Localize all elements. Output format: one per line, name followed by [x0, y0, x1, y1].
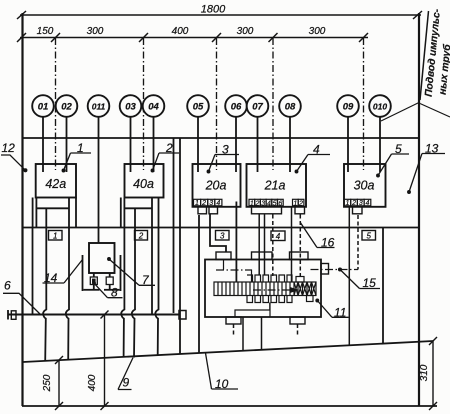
- centerline group axis 5: [363, 38, 365, 170]
- manifold drain stub right: [297, 324, 299, 336]
- comb teeth lower row: [247, 296, 292, 303]
- svg-text:10: 10: [215, 377, 229, 391]
- tick 400 top: [101, 311, 109, 319]
- instrument 03: [120, 95, 142, 117]
- dimension line 150-300-400-300-300: [17, 33, 368, 42]
- valve 8 right leg: [109, 273, 111, 277]
- block 21a: [247, 164, 307, 207]
- terminal strip 21a pins 1-6: [249, 199, 283, 206]
- dimension 310 vertical: [432, 341, 434, 406]
- svg-text:3: 3: [220, 232, 225, 241]
- manifold top flange left: [216, 252, 231, 260]
- svg-text:16: 16: [321, 236, 335, 250]
- svg-text:06: 06: [231, 102, 242, 113]
- instrument 08: [279, 95, 301, 117]
- svg-text:3: 3: [222, 143, 229, 157]
- leader callout 15: [340, 270, 380, 289]
- leader callout dot 8: [93, 282, 96, 285]
- wire 40a left leg to floor: [121, 228, 124, 357]
- leader callout 7: [109, 259, 155, 285]
- leader callout 11: [317, 301, 348, 318]
- wire 40a bar to floor: [132, 208, 135, 357]
- position tag 1: [49, 231, 63, 241]
- wire 08 to 21a: [289, 117, 291, 172]
- wire 21a terminal 4 down: [264, 215, 266, 276]
- manifold right flange: [321, 264, 329, 275]
- terminal stub 20a left: [198, 207, 207, 214]
- terminal strip 20a: [194, 199, 222, 206]
- wire 21a terminal 2 down: [258, 215, 260, 276]
- block 40a: [125, 164, 164, 198]
- svg-text:300: 300: [309, 26, 326, 37]
- svg-text:300: 300: [87, 26, 104, 37]
- svg-text:1800: 1800: [201, 4, 226, 16]
- svg-text:400: 400: [172, 26, 189, 37]
- wire 05 to 20a: [197, 117, 199, 172]
- position tag 4: [271, 231, 285, 241]
- impulse line 30a horizontal axis: [311, 269, 359, 271]
- manifold duct right wall: [261, 317, 263, 350]
- svg-text:4: 4: [276, 232, 281, 241]
- svg-text:08: 08: [285, 102, 296, 113]
- device 7 box: [89, 243, 115, 273]
- comb drain stub: [269, 303, 271, 318]
- manifold body: [205, 260, 321, 318]
- svg-text:010: 010: [373, 102, 387, 112]
- wire 07 to 21a: [257, 117, 259, 172]
- svg-text:2: 2: [201, 200, 206, 207]
- svg-text:11: 11: [334, 305, 346, 319]
- terminal strip 21a pins 1-2: [293, 199, 304, 206]
- tick 250 top: [55, 356, 63, 364]
- leader from 010 to note: [381, 102, 420, 121]
- leader callout dot 11: [316, 299, 319, 302]
- centerline group axis 3: [216, 38, 218, 170]
- tick 310 top: [429, 337, 437, 345]
- terminal stub 20a right: [209, 207, 218, 214]
- position tag 3: [216, 231, 230, 241]
- svg-text:250: 250: [42, 374, 53, 392]
- svg-text:6: 6: [4, 279, 11, 293]
- centerline group axis 2: [143, 38, 145, 170]
- terminal stub 21a aux: [295, 207, 305, 214]
- valve 8 left plug: [92, 279, 96, 283]
- centerline group axis 4: [272, 38, 274, 170]
- svg-text:2: 2: [351, 200, 356, 207]
- leader callout 13: [409, 154, 445, 193]
- purge pipe left valve: [11, 311, 16, 320]
- wire 03 to 40a: [130, 117, 132, 172]
- wire 21a aux down: [291, 207, 293, 282]
- leader callout 8: [94, 283, 123, 298]
- instrument 04: [143, 95, 165, 117]
- wire 40a right leg to floor: [155, 228, 158, 356]
- block 30a: [344, 164, 386, 207]
- manifold drain stub left: [233, 324, 235, 336]
- svg-text:02: 02: [61, 102, 72, 113]
- svg-text:42a: 42a: [45, 177, 66, 191]
- terminal stub 30a: [353, 207, 363, 214]
- terminal stub 21a main: [252, 207, 282, 214]
- svg-text:400: 400: [87, 374, 98, 391]
- leader callout 5: [378, 154, 409, 176]
- instrument 010: [369, 95, 391, 117]
- leader callout 16: [300, 222, 335, 248]
- valve comb inside manifold: [214, 260, 316, 318]
- frame bottom line: [22, 405, 437, 407]
- wire 20a right jog to manifold: [210, 215, 226, 253]
- leader callout dot 1: [62, 169, 65, 172]
- device 7 bracket left: [82, 255, 84, 291]
- svg-text:12: 12: [2, 141, 16, 155]
- manifold top flange middle: [252, 252, 273, 260]
- manifold axis left: [216, 269, 252, 271]
- instrument 02: [56, 95, 78, 117]
- valve 8 right foot: [104, 289, 120, 291]
- dimension line 1800: [17, 11, 422, 19]
- impulse pipes note slant line: [420, 11, 429, 100]
- svg-text:14: 14: [44, 271, 58, 285]
- left flange link to axis: [223, 260, 225, 270]
- svg-text:150: 150: [37, 26, 54, 37]
- impulse line 30a dashed down: [357, 215, 359, 270]
- support 40a inner right to pipe: [151, 228, 153, 314]
- shelf line top: [23, 137, 419, 139]
- svg-text:2: 2: [165, 141, 173, 155]
- shelf line middle: [23, 227, 419, 229]
- leader callout dot 5: [377, 174, 380, 177]
- device 7 bracket right: [120, 255, 122, 291]
- drain pipe inside manifold: [235, 303, 270, 318]
- wire at pipe end to floor: [179, 319, 181, 354]
- wire 04 to 40a: [153, 117, 155, 172]
- svg-text:1: 1: [195, 200, 199, 207]
- purge pipe left end bar: [7, 310, 9, 320]
- frame right border: [418, 13, 420, 406]
- wire 06 to 20a: [235, 117, 237, 172]
- instrument 05: [187, 95, 209, 117]
- instrument circles row: [32, 95, 391, 117]
- svg-text:30a: 30a: [354, 179, 375, 193]
- svg-text:4: 4: [313, 143, 320, 157]
- svg-text:8: 8: [111, 286, 118, 300]
- frame left border: [21, 13, 23, 406]
- partition wall second line: [179, 138, 181, 319]
- valve 8 left body: [90, 277, 97, 285]
- comb teeth upper row: [247, 275, 292, 282]
- impulse line 21a aux dashed: [299, 215, 301, 277]
- leader callout dot 7: [108, 258, 111, 261]
- sloped floor line: [23, 341, 433, 362]
- svg-text:1: 1: [77, 141, 84, 155]
- tick 250 bottom: [55, 402, 63, 410]
- wire 42a outer left to purge pipe: [32, 228, 34, 314]
- position tag 5: [362, 231, 376, 241]
- manifold bottom flange left: [226, 317, 241, 324]
- svg-text:3: 3: [209, 200, 213, 207]
- wire 42a right leg to floor: [66, 228, 69, 360]
- svg-text:5: 5: [366, 232, 371, 241]
- axis link down to comb: [251, 270, 253, 283]
- leader callout 4: [297, 155, 331, 172]
- position tag 2: [135, 231, 148, 241]
- svg-text:13: 13: [425, 142, 439, 156]
- valve 8 left leg: [93, 273, 95, 277]
- leader callout 1: [64, 153, 92, 171]
- svg-text:9: 9: [123, 376, 130, 390]
- svg-text:07: 07: [252, 102, 263, 113]
- manifold bottom flange right: [290, 317, 305, 324]
- leader callout 12: [1, 155, 25, 170]
- dimension 250 vertical: [58, 360, 60, 406]
- centerline group axis 1: [55, 38, 57, 170]
- impulse pipes note bottom line: [420, 104, 450, 118]
- svg-text:20a: 20a: [205, 179, 227, 193]
- svg-text:011: 011: [92, 102, 106, 112]
- leader callout dot 4: [295, 170, 298, 173]
- wire 011 down to device 7: [98, 117, 100, 243]
- svg-text:300: 300: [237, 26, 254, 37]
- leader callout dot 13: [408, 191, 411, 194]
- control line 21a dashed down: [272, 215, 274, 277]
- wire 30a solid down to floor: [348, 207, 350, 346]
- svg-text:40a: 40a: [133, 177, 154, 191]
- svg-text:310: 310: [419, 364, 430, 381]
- valve crosses in comb right cells: [294, 282, 316, 296]
- terminal strip 30a: [344, 199, 371, 206]
- instrument 07: [247, 95, 269, 117]
- svg-text:04: 04: [148, 102, 159, 113]
- tick 310 bottom: [429, 402, 437, 410]
- leader callout dot 3: [207, 170, 210, 173]
- valve 8 right body: [106, 277, 113, 285]
- stand under 42a: [33, 198, 76, 228]
- leader callout 2: [153, 153, 180, 171]
- leader callout 6: [3, 293, 40, 314]
- svg-text:4: 4: [216, 200, 220, 207]
- manifold duct left wall: [242, 317, 244, 351]
- instrument 011: [88, 95, 110, 117]
- svg-text:4: 4: [366, 200, 370, 207]
- svg-text:09: 09: [343, 102, 354, 113]
- purge pipe: [8, 314, 179, 316]
- block 42a: [36, 164, 76, 198]
- leader callout 14: [43, 260, 83, 284]
- wire 01 to 42a: [42, 117, 44, 172]
- svg-text:03: 03: [125, 102, 136, 113]
- right partition wall: [382, 228, 384, 344]
- svg-text:21a: 21a: [264, 179, 286, 193]
- svg-text:3: 3: [359, 200, 363, 207]
- pipe manifold assembly: [205, 260, 321, 318]
- instrument 06: [225, 95, 247, 117]
- svg-text:2: 2: [138, 232, 144, 241]
- wire 20a left down to floor: [198, 215, 200, 353]
- leader callout 3: [209, 155, 240, 172]
- svg-text:15: 15: [363, 276, 377, 290]
- unit bottom stub: [307, 296, 314, 302]
- instrument 01: [32, 95, 54, 117]
- wire 010 to 30a: [379, 117, 381, 172]
- leader callout dot 2: [151, 169, 154, 172]
- instrument 09: [337, 95, 359, 117]
- block 20a: [193, 164, 241, 207]
- dimension 400 vertical: [104, 315, 106, 407]
- valve 8 left lower leg: [93, 285, 95, 290]
- svg-text:1: 1: [345, 200, 349, 207]
- tick 400 bottom: [101, 402, 109, 410]
- unit top stub: [296, 277, 304, 283]
- svg-text:5: 5: [395, 142, 402, 156]
- wire 09 to 30a: [347, 117, 349, 172]
- manifold top flange right: [290, 252, 309, 260]
- valve 8 left foot: [84, 289, 100, 291]
- stand under 40a: [121, 198, 159, 228]
- leader callout 9: [118, 358, 133, 390]
- leader callout 10: [206, 353, 239, 389]
- wire 06 through 20a to manifold: [235, 202, 237, 283]
- leader callout dot 15: [339, 268, 342, 271]
- svg-text:05: 05: [193, 102, 204, 113]
- valve 8 right lower leg: [109, 285, 111, 290]
- wire 02 to 42a: [66, 117, 68, 172]
- svg-text:01: 01: [38, 102, 49, 113]
- wire 42a bar to floor: [43, 208, 46, 361]
- svg-text:1: 1: [53, 232, 57, 241]
- partition wall between panels: [173, 138, 175, 313]
- manifold axis arrow: [253, 288, 297, 292]
- purge pipe right end fitting: [179, 311, 186, 320]
- leader callout dot 12: [24, 169, 27, 172]
